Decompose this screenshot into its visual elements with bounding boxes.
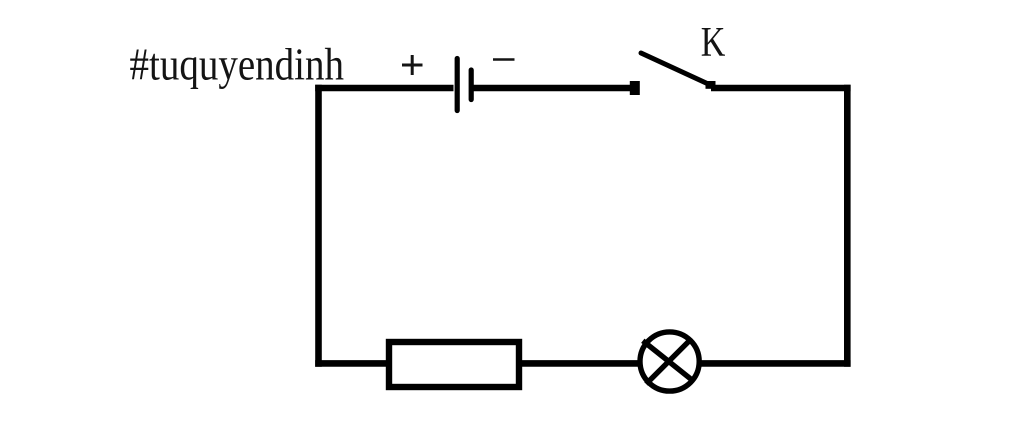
battery B1 negative short plate <box>469 70 474 100</box>
svg-text:#tuquyendinh: #tuquyendinh <box>130 39 345 89</box>
lamp cross <box>643 339 694 384</box>
svg-text:K: K <box>701 19 726 66</box>
battery B1 positive long plate <box>455 59 460 111</box>
battery minus label <box>493 58 515 61</box>
wire bottom-right segment (lamp to corner) <box>700 360 851 367</box>
switch K right contact <box>706 81 716 89</box>
wire switch to top-right corner <box>711 85 851 92</box>
lamp L circle <box>640 332 699 391</box>
battery plus label <box>402 55 423 75</box>
switch K lever <box>641 53 712 86</box>
wire top-left segment (battery + terminal to top-left corner) <box>315 85 453 92</box>
resistor R <box>389 342 519 387</box>
wire bottom-left segment (corner to resistor) <box>315 360 386 367</box>
wire right vertical <box>844 85 851 367</box>
switch K left contact <box>630 81 640 95</box>
wire left vertical <box>315 85 322 367</box>
wire resistor to lamp <box>519 360 640 367</box>
wire battery to switch <box>474 85 632 92</box>
